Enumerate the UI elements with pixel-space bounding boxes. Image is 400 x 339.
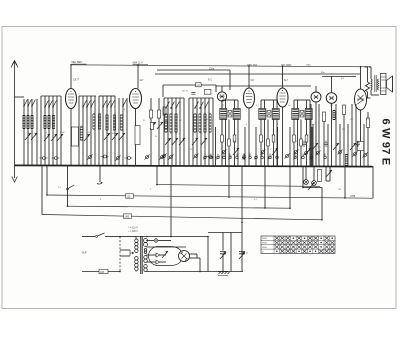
audio stage components [310,104,312,166]
svg-text:ABK 11.4: ABK 11.4 [133,61,144,64]
wire drop x47 [46,166,48,195]
coil bank L5 [118,98,120,166]
wire drop x265 [264,166,266,208]
wire tube6 top [315,86,317,92]
tone network [321,188,323,220]
svg-text:~ = 220 V: ~ = 220 V [128,231,138,233]
wire tube6 drop [315,102,317,166]
wire drop x42 [41,166,43,215]
svg-text:SP.46: SP.46 [365,66,372,69]
rectifier anode wires [146,254,156,256]
wire primary bottom [135,270,137,273]
wire drop x242 [241,166,243,272]
svg-text:228: 228 [100,271,105,274]
wire tube1 cathode drop [70,109,72,167]
wire tube5 grid riser [282,66,284,88]
coil bank L1 with wave switch [23,99,25,166]
wire hline A [157,185,320,187]
svg-text:MEL.BEH.: MEL.BEH. [72,61,83,64]
svg-text:1M: 1M [233,141,236,143]
HT bottom wire [146,271,243,273]
switch S2 [67,166,69,206]
IF transformer T3 [292,109,299,120]
smoothing cap C2 [239,252,245,254]
ground bus [15,165,373,166]
junction dots [46,194,48,196]
resistor R-grid output [367,67,369,82]
wire tube4 cathode drop [248,108,250,166]
wire antenna to coil bank [15,96,25,98]
wire output screen y76.5 [322,76,356,78]
wire mains left rail [119,237,121,272]
svg-text:2M: 2M [112,133,115,135]
svg-text:125: 125 [127,195,132,198]
wire drop x345 [344,166,346,198]
tube V1 CK77 [66,89,77,109]
tube V7 [326,93,337,104]
svg-text:CK77: CK77 [73,79,80,82]
pot wiper drop [99,166,101,182]
wire tube7 drop [331,103,333,166]
oscillator coil bank L7 [189,97,213,99]
resistor R cathode V2 [135,126,140,145]
wire drop x157 [156,166,158,185]
tube V4 6L7 [244,88,255,108]
antenna [14,61,16,166]
wire plate line y86 [216,85,311,87]
wire mid rail [230,233,232,272]
tube V3 [217,92,226,101]
wire feedback loop y70 [157,69,230,71]
mains bottom wire [82,271,120,273]
wire HT rail [207,237,209,272]
svg-text:6L7: 6L7 [251,79,256,82]
resistor R volume [72,127,79,146]
wire drop x171 [170,166,172,237]
wire primary top [135,237,137,240]
ground arrow below bus [14,166,16,178]
rectifier anode wires 2 [146,261,156,263]
svg-text:220V: 220V [262,238,267,240]
svg-text:150V: 150V [262,243,267,245]
wire heater tap1 [146,240,154,242]
svg-text:1785: 1785 [350,196,356,198]
wire tube8 cathode drop [360,110,362,166]
svg-text:180a: 180a [306,65,312,67]
wire AVC line [71,65,371,67]
IF transformer T1 [220,109,227,120]
wire drop x290 [289,166,291,208]
tube V2 4L7 [130,89,142,109]
chassis ground symbol [218,271,228,273]
voltage selector tap [120,249,130,251]
rectifier loop [149,247,182,266]
mains switch [82,236,95,238]
svg-text:Ch 10: Ch 10 [182,91,189,93]
wire drop x229 [228,166,230,197]
wire tube2 grid riser [137,65,139,89]
IF transformer T2 [259,109,266,120]
svg-text:2M: 2M [342,129,345,131]
wire hline B [47,195,373,198]
wire tube8 grid riser [360,67,362,89]
smoothing cap C1 [222,233,224,251]
wire tube3 drop [221,101,223,166]
wire tube7 top [331,77,333,93]
svg-text:6L7: 6L7 [284,79,289,82]
svg-text:226a: 226a [209,68,215,70]
svg-text:ALP: ALP [82,252,87,255]
rectifier tube V9 [179,251,190,262]
wire detector loop y85 [163,84,216,86]
wire hline C [68,206,291,208]
wire y232 link [208,232,242,234]
wire tube3 top [221,86,223,92]
wire tube4 grid riser [248,66,250,88]
svg-text:1M: 1M [350,119,353,121]
wire drop x373 [372,166,374,198]
coil bank L3 with wave switch [79,95,96,97]
svg-text:6 W 97 E: 6 W 97 E [380,119,392,166]
tube V6 [311,92,321,102]
oscillator coil bank L6 [164,97,184,99]
power transformer TR1 [135,239,138,242]
svg-text:~ = 110 V: ~ = 110 V [128,228,138,230]
voltage code table [261,236,335,254]
speaker LS [381,74,387,95]
wire comb verticals [215,127,217,166]
wire hline D [42,215,322,220]
svg-text:110V: 110V [262,247,267,249]
svg-text:4L7: 4L7 [140,79,145,82]
wire screen line y74 [155,73,361,75]
wire tube1 grid riser [70,65,72,89]
svg-text:1M5: 1M5 [125,216,130,219]
tube V5 [277,88,288,107]
resistors R1 R2 mixer [150,98,152,166]
svg-text:1M: 1M [338,189,341,191]
bus decoupling capacitors [43,157,46,160]
coil bank L2 with wave switch [41,95,61,97]
trimmer row above bus [204,156,207,159]
rectifier output wires [189,253,197,255]
wire heater tap2 [146,246,186,248]
power top wire [136,236,208,238]
wire tube2 cathode drop [135,109,137,167]
feedback parts right [325,166,327,181]
coil bank L4 with wave switch [99,95,115,97]
tube V8 output [355,89,367,110]
output transformer [370,67,372,79]
wire tube5 cathode drop [282,107,284,166]
